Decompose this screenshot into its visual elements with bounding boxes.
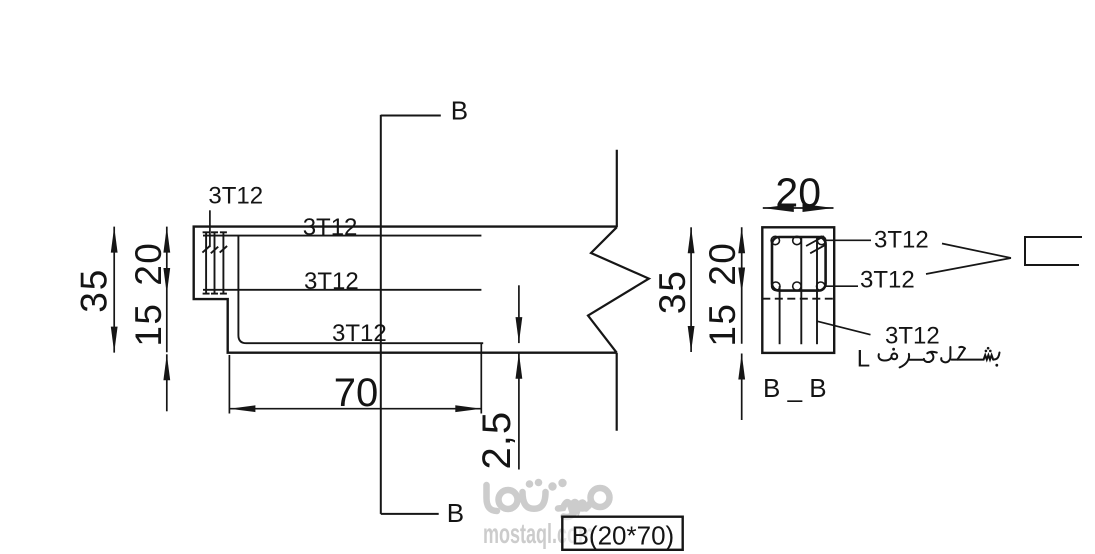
svg-text:B(20*70): B(20*70) — [572, 521, 675, 551]
dim 2,5: upper line + down arrow — [518, 285, 520, 343]
watermark mostaql logo — [487, 485, 610, 517]
svg-text:3T12: 3T12 — [208, 182, 263, 209]
svg-text:70: 70 — [334, 371, 379, 415]
svg-text:L: L — [857, 345, 870, 372]
title box B(20*70) — [562, 517, 682, 550]
svg-text:15: 15 — [128, 303, 169, 347]
svg-text:2,5: 2,5 — [475, 411, 519, 470]
dim 70: line + arrows — [229, 408, 481, 410]
dim 35 right figure: line + arrows — [690, 227, 692, 352]
rebar circles bottom row — [772, 282, 780, 290]
section line bottom tick — [381, 513, 439, 515]
svg-text:15: 15 — [702, 303, 743, 347]
svg-text:B: B — [447, 498, 464, 528]
dim 20/15 chain left: line — [166, 227, 168, 353]
svg-text:20: 20 — [128, 242, 169, 286]
L-bar verticals in section — [779, 286, 781, 344]
dim 35 left: line — [113, 227, 115, 353]
stirrup bar 2 — [211, 232, 218, 295]
dim 70: extension lines — [228, 355, 230, 414]
Arabic note "bishakl harf" drawn paths — [879, 347, 1000, 368]
stirrup (closed tie) — [772, 237, 826, 291]
stirrup bar 3 — [220, 232, 227, 295]
svg-text:3T12: 3T12 — [304, 268, 359, 295]
dim 35 left: arrows — [111, 227, 118, 253]
beam right edge lower stub — [616, 353, 618, 431]
svg-text:20: 20 — [775, 169, 821, 215]
svg-text:3T12: 3T12 — [860, 267, 915, 294]
cross-section dashed line — [762, 298, 834, 300]
bar detail bracket (right edge) — [1025, 237, 1082, 265]
dim 20/15 chain right figure — [741, 227, 743, 343]
beam right break-line zigzag — [588, 227, 649, 353]
leader to 3T12 (bottom right circle) — [825, 285, 858, 287]
dim 20 top of section: line + arrows — [763, 207, 834, 209]
middle rebar line — [203, 289, 481, 291]
leader to 3T12 (L-bars) — [817, 321, 871, 335]
dim chain left arrows — [163, 227, 170, 253]
bent L-bar (vertical + bottom rebar line) — [238, 236, 483, 344]
dim 2,5: lower line + up arrow — [518, 353, 520, 470]
section line B-B vertical — [380, 115, 382, 514]
stirrup hook slashes — [806, 236, 824, 246]
svg-text:3T12: 3T12 — [874, 226, 929, 253]
leader to 3T12 (top right circle) — [825, 239, 871, 241]
cross-section rectangle (right figure) — [762, 227, 834, 353]
svg-text:B _ B: B _ B — [763, 373, 827, 403]
stirrup bar 1 — [202, 232, 209, 295]
svg-text:3T12: 3T12 — [303, 214, 358, 241]
svg-text:3T12: 3T12 — [885, 323, 940, 350]
dim chain left lower extension — [166, 354, 168, 411]
rebar circles top row — [771, 236, 779, 244]
beam right edge upper stub — [616, 150, 618, 227]
leader lines converging to bar detail — [942, 244, 1011, 259]
section line top tick — [381, 115, 441, 117]
svg-text:B: B — [451, 96, 468, 126]
svg-text:35: 35 — [74, 268, 115, 313]
beam elevation outline (left figure) — [194, 227, 617, 353]
svg-text:3T12: 3T12 — [332, 320, 387, 347]
label 3T12 top-left leader — [209, 210, 211, 247]
svg-text:35: 35 — [652, 269, 693, 314]
top rebar line — [203, 235, 481, 237]
svg-text:20: 20 — [702, 242, 743, 286]
